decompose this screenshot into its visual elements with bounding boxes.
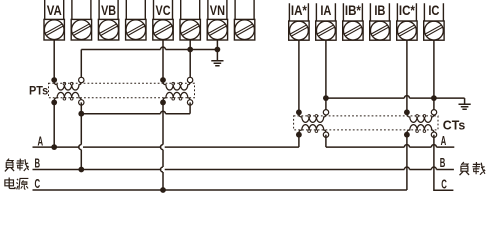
ground (left, at VN) <box>211 61 223 66</box>
terminal IC <box>424 3 444 40</box>
svg-text:B: B <box>440 155 446 170</box>
wire VN bus: PT1 right lead up and across to VN <box>80 50 82 81</box>
svg-text:C: C <box>441 177 447 192</box>
label 电源 (source, left) <box>5 178 15 189</box>
junction IC on ground bus <box>431 95 437 101</box>
wire PT2 secondary dot down to line C (hops over A and B) <box>161 102 163 190</box>
terminal VB <box>98 0 118 40</box>
wire IC* terminal to CT2 dot <box>406 40 408 112</box>
transformer PT2 (phase C) <box>160 77 193 105</box>
svg-text:IC*: IC* <box>399 3 416 18</box>
wire VN terminal stub <box>216 40 218 61</box>
junction VN on bus <box>215 47 221 53</box>
junction PT1 right lead on line B <box>78 167 84 173</box>
svg-text:VB: VB <box>101 3 116 18</box>
svg-text:IB*: IB* <box>345 3 362 18</box>
wire phase line A (source segment) <box>33 146 299 148</box>
wire PT1 secondary dot to line A <box>53 102 55 147</box>
wire CT2 primary dot to line C (source side) <box>406 135 408 190</box>
junction IA on ground bus <box>323 95 329 101</box>
svg-text:IC: IC <box>428 3 439 18</box>
wire phase line A (load segment, hops over CT2 leads) <box>326 145 454 148</box>
junction T6 on VN bus <box>187 47 193 53</box>
terminal VA <box>44 0 64 40</box>
terminal IC* <box>397 3 417 40</box>
transformer PT1 (phase A) <box>51 77 84 105</box>
terminal IB* <box>343 3 363 40</box>
svg-text:C: C <box>35 176 41 191</box>
svg-text:IA: IA <box>320 3 331 18</box>
wire VC terminal down to PT2 dot (hops over bus) <box>162 40 164 80</box>
wire T6 terminal down to PT2 right lead <box>189 40 191 80</box>
terminal T6 <box>180 0 200 40</box>
terminal T4 <box>126 0 146 40</box>
terminal T8 <box>234 0 254 40</box>
terminal IA <box>316 3 336 40</box>
CTs dotted boundary <box>294 116 438 130</box>
wire CT2 primary right lead to line C stub (load side) <box>434 135 454 191</box>
wire PT1 secondary right lead down to line B (hops over A) <box>79 102 82 169</box>
junction PT2 dot lead on line C <box>160 187 166 193</box>
junction VA wire on line A <box>51 144 57 150</box>
wire CT1 primary dot to line A (source side) <box>298 135 300 147</box>
svg-text:B: B <box>35 156 41 171</box>
terminal T2 <box>71 0 91 40</box>
transformer CT1 (phase A) <box>296 109 329 137</box>
wire IA terminal to CT1 right lead <box>325 40 327 112</box>
terminal VN <box>207 0 227 40</box>
svg-text:PTs: PTs <box>29 83 48 97</box>
wire CT1 primary right lead to line A (load side) <box>325 135 327 147</box>
terminal IA* <box>289 3 309 40</box>
svg-text:VA: VA <box>47 3 62 18</box>
wire IA* terminal to CT1 dot <box>298 40 300 112</box>
terminal IB <box>370 3 390 40</box>
wire ground bus (IA, IC commons) <box>326 96 465 98</box>
wire phase line C <box>33 189 407 191</box>
label 负载 (load, left) <box>5 159 14 172</box>
wire B-tie across to PT2 right lead <box>81 111 190 114</box>
svg-text:IA*: IA* <box>291 3 308 18</box>
wire phase line B (hops over CT2 leads) <box>33 167 454 170</box>
svg-text:CTs: CTs <box>443 117 466 132</box>
PTs dotted boundary <box>49 83 195 97</box>
transformer CT2 (phase C) <box>404 109 437 137</box>
svg-text:A: A <box>38 133 44 148</box>
svg-text:A: A <box>441 133 447 148</box>
junction PT1 right lead / B-tie <box>78 111 84 117</box>
svg-text:VN: VN <box>210 3 225 18</box>
svg-text:IB: IB <box>374 3 385 18</box>
wire VA terminal to PT1 primary dot <box>53 40 55 80</box>
label 负载 (load, right) <box>460 162 470 175</box>
terminal VC <box>153 0 173 40</box>
svg-text:VC: VC <box>156 3 171 18</box>
wire IC terminal to CT2 right lead <box>433 40 435 112</box>
ground (right, CT commons) <box>459 104 471 109</box>
